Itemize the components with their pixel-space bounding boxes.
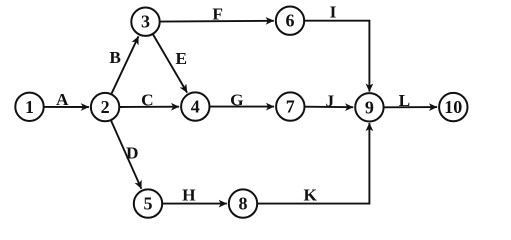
svg-text:E: E — [176, 49, 188, 68]
svg-text:7: 7 — [286, 97, 295, 117]
svg-text:C: C — [141, 91, 153, 110]
svg-text:J: J — [325, 92, 334, 111]
svg-text:G: G — [230, 90, 243, 109]
svg-text:5: 5 — [144, 194, 153, 214]
svg-text:A: A — [56, 90, 69, 109]
svg-text:10: 10 — [444, 97, 462, 117]
svg-text:3: 3 — [141, 12, 150, 32]
svg-text:K: K — [303, 185, 317, 204]
svg-text:I: I — [330, 3, 337, 22]
svg-text:1: 1 — [25, 97, 34, 117]
svg-text:H: H — [182, 185, 196, 204]
svg-text:B: B — [109, 48, 121, 67]
svg-text:L: L — [399, 91, 411, 110]
svg-text:6: 6 — [286, 11, 295, 31]
svg-text:D: D — [126, 144, 138, 163]
svg-text:2: 2 — [101, 97, 110, 117]
svg-text:8: 8 — [239, 194, 248, 214]
svg-text:4: 4 — [191, 97, 200, 117]
svg-text:F: F — [212, 5, 223, 24]
svg-text:9: 9 — [365, 97, 374, 117]
